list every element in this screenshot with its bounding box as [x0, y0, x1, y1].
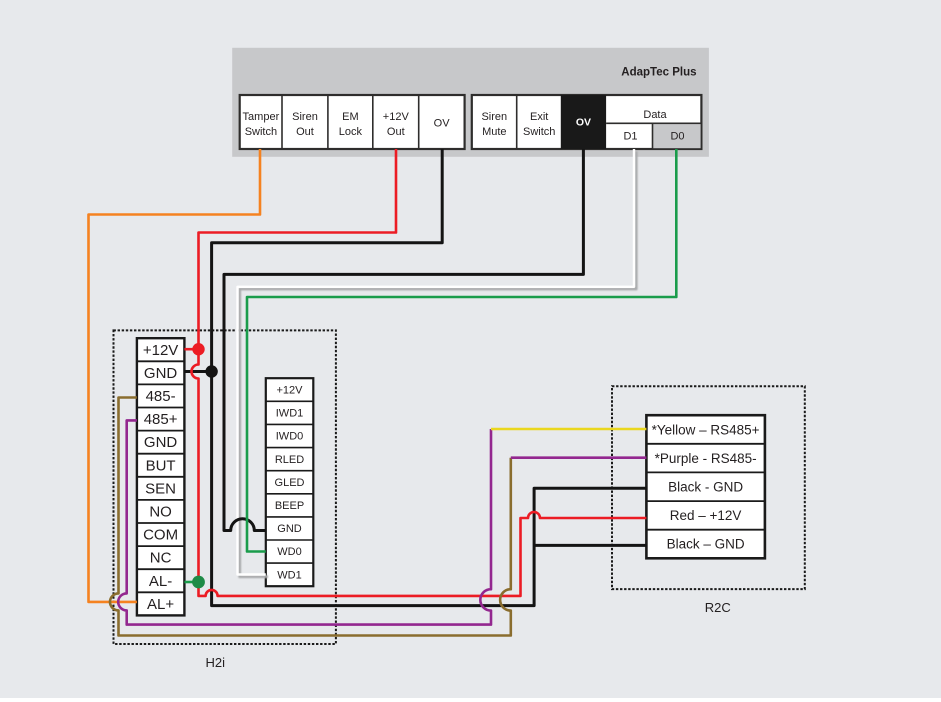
- svg-text:Red – +12V: Red – +12V: [670, 508, 742, 523]
- svg-text:WD0: WD0: [277, 546, 301, 558]
- svg-text:+12V: +12V: [277, 385, 304, 397]
- svg-text:Black – GND: Black – GND: [667, 537, 745, 552]
- svg-text:IWD1: IWD1: [276, 408, 304, 420]
- svg-text:Black - GND: Black - GND: [668, 480, 743, 495]
- svg-text:Switch: Switch: [245, 126, 277, 138]
- svg-text:485+: 485+: [144, 411, 178, 428]
- svg-text:Siren: Siren: [292, 111, 318, 123]
- svg-text:Lock: Lock: [339, 126, 363, 138]
- svg-text:AL+: AL+: [147, 596, 174, 613]
- svg-text:NO: NO: [149, 504, 172, 521]
- svg-text:D0: D0: [670, 130, 684, 142]
- svg-text:IWD0: IWD0: [276, 431, 304, 443]
- svg-text:Mute: Mute: [482, 126, 506, 138]
- svg-text:COM: COM: [143, 527, 178, 544]
- svg-text:AdapTec Plus: AdapTec Plus: [621, 67, 696, 79]
- svg-text:RLED: RLED: [275, 454, 304, 466]
- svg-text:+12V: +12V: [143, 342, 178, 359]
- svg-text:BEEP: BEEP: [275, 500, 304, 512]
- svg-text:GLED: GLED: [275, 477, 305, 489]
- svg-text:Out: Out: [387, 126, 405, 138]
- svg-text:+12V: +12V: [383, 111, 410, 123]
- svg-text:*Yellow – RS485+: *Yellow – RS485+: [652, 422, 760, 437]
- svg-text:GND: GND: [144, 434, 178, 451]
- svg-text:GND: GND: [144, 365, 178, 382]
- svg-text:GND: GND: [277, 523, 302, 535]
- svg-text:EM: EM: [342, 111, 359, 123]
- svg-text:Tamper: Tamper: [243, 111, 280, 123]
- svg-text:AL-: AL-: [149, 573, 172, 590]
- svg-text:R2C: R2C: [705, 600, 731, 615]
- svg-text:Data: Data: [643, 109, 667, 121]
- svg-text:SEN: SEN: [145, 480, 176, 497]
- svg-text:Switch: Switch: [523, 126, 555, 138]
- svg-text:OV: OV: [576, 116, 591, 128]
- svg-text:Exit: Exit: [530, 111, 548, 123]
- svg-text:WD1: WD1: [277, 569, 301, 581]
- svg-text:Siren: Siren: [481, 111, 507, 123]
- svg-text:*Purple - RS485-: *Purple - RS485-: [655, 451, 757, 466]
- svg-text:OV: OV: [434, 118, 451, 130]
- svg-text:H2i: H2i: [206, 655, 226, 670]
- svg-text:BUT: BUT: [146, 457, 176, 474]
- svg-text:485-: 485-: [146, 388, 176, 405]
- svg-text:Out: Out: [296, 126, 314, 138]
- svg-text:D1: D1: [623, 130, 637, 142]
- svg-text:NC: NC: [150, 550, 172, 567]
